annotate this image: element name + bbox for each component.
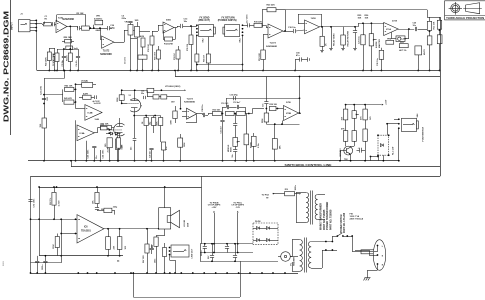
svg-text:1u0 63V: 1u0 63V	[94, 103, 102, 105]
svg-text:10K: 10K	[358, 17, 362, 19]
bottom bus	[31, 273, 299, 275]
svg-text:C18 10n: C18 10n	[288, 27, 296, 29]
svg-text:INPUT: INPUT	[10, 22, 14, 30]
svg-text:+15V: +15V	[386, 99, 388, 105]
svg-text:100K: 100K	[53, 244, 55, 249]
svg-text:10n: 10n	[232, 154, 234, 157]
svg-text:-12V: -12V	[236, 207, 241, 209]
resistor R15	[190, 25, 192, 27]
svg-text:FX SEND: FX SEND	[200, 17, 210, 19]
wire left sub rail	[39, 187, 41, 256]
svg-text:TR2: TR2	[344, 159, 348, 161]
svg-text:NJM2068D: NJM2068D	[266, 46, 277, 48]
op-amp IC3A	[102, 36, 114, 48]
wire rail link	[31, 262, 62, 264]
wire top rail power amp	[39, 187, 201, 189]
potentiometer VR6 MASTER	[371, 23, 373, 34]
svg-text:47K: 47K	[359, 116, 362, 120]
capacitor C2	[54, 48, 56, 55]
capacitor C38	[203, 113, 205, 117]
svg-text:A47K: A47K	[83, 92, 89, 95]
svg-text:A100K: A100K	[375, 41, 378, 48]
svg-text:LK1: LK1	[47, 97, 49, 101]
resistor R30	[439, 17, 441, 20]
transformer T1	[306, 193, 309, 198]
capacitor C4	[78, 49, 80, 56]
svg-text:LK2: LK2	[100, 124, 103, 126]
wire tone out	[133, 30, 135, 32]
svg-text:4K7 1%: 4K7 1%	[399, 49, 406, 52]
projection symbol cone	[466, 3, 480, 14]
svg-text:B50K: B50K	[231, 147, 233, 152]
resistor R2	[82, 26, 90, 30]
resistor R20 feedback	[262, 10, 264, 28]
svg-text:R56 1R: R56 1R	[204, 55, 206, 62]
switch SW1	[332, 236, 334, 242]
wire lower rail amp	[39, 255, 123, 257]
capacitor C75	[235, 244, 237, 256]
wire input node	[31, 219, 76, 221]
svg-text:4R7: 4R7	[151, 245, 154, 248]
op-amp IC5B	[284, 106, 299, 121]
resistor R36	[252, 136, 257, 146]
svg-text:C21 10u: C21 10u	[358, 36, 360, 44]
capacitor C1	[50, 24, 53, 26]
node IC2B out	[284, 30, 286, 32]
bus second line	[174, 70, 176, 72]
wire bottom band top link	[31, 176, 441, 178]
potentiometer VR2	[128, 25, 133, 36]
resistor R22	[343, 27, 345, 35]
resistor R46	[116, 139, 120, 150]
wire SK3 tip	[243, 25, 248, 27]
earth wire	[377, 264, 379, 270]
resistor R52	[119, 95, 124, 101]
wire IC5A out	[197, 113, 203, 115]
preset PR4	[386, 40, 394, 44]
resistor R48	[151, 150, 153, 161]
svg-text:R14 470K: R14 470K	[164, 43, 174, 46]
wire IC3A out	[114, 42, 124, 44]
svg-text:RL1 12V: RL1 12V	[393, 146, 395, 155]
relay send net	[330, 26, 332, 28]
third angle projection box	[445, 1, 485, 20]
svg-text:LAMP: LAMP	[401, 38, 407, 41]
capacitor C29	[415, 27, 417, 31]
svg-text:C4 47u: C4 47u	[75, 59, 78, 66]
wire speaker return	[164, 229, 166, 236]
svg-text:C10 470p: C10 470p	[230, 93, 239, 96]
svg-text:R33 10K: R33 10K	[213, 110, 221, 112]
diode D3	[115, 132, 118, 135]
feedback caps C10 C12	[222, 107, 224, 114]
resistor R41b	[272, 139, 277, 150]
svg-text:1000u: 1000u	[42, 264, 44, 270]
resistor R63c	[97, 210, 104, 212]
resistor R49b	[178, 138, 183, 147]
capacitor C12b pot VR3	[235, 114, 237, 124]
svg-text:IC3B: IC3B	[58, 17, 63, 19]
svg-text:22K 1%: 22K 1%	[50, 198, 52, 205]
resistor R44	[42, 118, 46, 128]
wire right drop	[201, 176, 203, 243]
resistor R47	[107, 138, 112, 148]
wire IC8 out	[174, 27, 177, 29]
op-amp IC1A	[384, 23, 399, 36]
wire IC3B feedback top	[56, 15, 58, 22]
node input	[35, 20, 37, 22]
resistor R70	[352, 131, 356, 142]
capacitor C26	[107, 26, 109, 30]
footswitch contacts bus	[370, 156, 372, 158]
resistor R33	[213, 111, 222, 115]
svg-text:NJM2068D: NJM2068D	[184, 102, 195, 104]
svg-text:10K: 10K	[341, 116, 343, 120]
svg-text:10K: 10K	[125, 245, 127, 249]
resistor R51	[116, 138, 120, 148]
wire IC2A feedback	[298, 23, 305, 25]
svg-text:LK3(A): LK3(A)	[81, 80, 88, 83]
svg-text:IC5B: IC5B	[286, 113, 291, 115]
wire neutral	[369, 255, 378, 257]
svg-text:R42 10K: R42 10K	[65, 85, 73, 88]
capacitor C16	[266, 77, 268, 102]
wire SK3 sleeve	[242, 35, 244, 70]
svg-text:100K: 100K	[117, 97, 119, 102]
svg-text:12dB: 12dB	[95, 119, 100, 121]
svg-text:R15 1M: R15 1M	[187, 44, 189, 51]
resistor R24	[381, 48, 383, 51]
svg-text:THIRD ANGLE PROJECTION: THIRD ANGLE PROJECTION	[446, 16, 484, 20]
svg-text:18V: 18V	[171, 102, 175, 104]
heater winding	[281, 252, 291, 262]
svg-text:1V58: 1V58	[311, 18, 317, 20]
svg-text:R4 1K: R4 1K	[65, 55, 68, 61]
resistor R40	[266, 109, 268, 114]
svg-text:R2 10K: R2 10K	[77, 13, 85, 15]
svg-text:R58 1M0: R58 1M0	[64, 37, 73, 39]
capacitor C7	[77, 26, 79, 30]
svg-text:330K: 330K	[262, 118, 264, 123]
svg-text:HEATER: HEATER	[293, 257, 296, 266]
svg-text:C20 220n: C20 220n	[88, 149, 90, 159]
svg-text:IC4A: IC4A	[80, 132, 85, 135]
svg-text:R57 22K: R57 22K	[259, 53, 261, 61]
wire cluster top	[57, 49, 78, 51]
svg-text:R20 22K: R20 22K	[267, 4, 276, 6]
resistor R63	[429, 30, 431, 36]
capacitor C70	[204, 244, 206, 247]
transistor TR2	[344, 146, 353, 155]
capacitor C33	[357, 150, 360, 152]
svg-text:220n: 220n	[122, 18, 127, 20]
capacitor C11	[222, 114, 224, 120]
svg-text:C6 LK1: C6 LK1	[125, 56, 127, 64]
wire +15V rail top	[285, 9, 427, 11]
resistor R53b	[147, 90, 149, 97]
svg-text:LS1 8R: LS1 8R	[184, 219, 186, 227]
svg-text:CH OP AMPS: CH OP AMPS	[208, 204, 221, 207]
svg-text:C11 4n7: C11 4n7	[220, 126, 223, 133]
resistor R58b	[52, 192, 56, 205]
wire IC5B feedback	[266, 124, 299, 126]
projection symbol circle	[451, 4, 460, 13]
svg-text:C10 1n5: C10 1n5	[221, 103, 228, 105]
lamp DL1	[396, 36, 405, 42]
svg-text:C30 10u: C30 10u	[377, 58, 379, 66]
capacitor C61	[37, 256, 39, 261]
resistor R61	[95, 192, 99, 203]
wire IC3B out	[67, 26, 77, 28]
svg-text:FX RETURN: FX RETURN	[222, 17, 235, 19]
wire IC1A out	[398, 29, 414, 31]
psu rail 1	[200, 243, 253, 245]
transformer T2	[300, 240, 303, 245]
mute switch	[415, 46, 422, 55]
svg-text:R58 100R: R58 100R	[45, 57, 47, 66]
svg-text:POWER SWITCH: POWER SWITCH	[341, 214, 343, 233]
svg-text:240V: T500mA: 240V: T500mA	[350, 217, 364, 220]
svg-text:TL072: TL072	[103, 51, 110, 53]
svg-text:22K: 22K	[113, 245, 115, 249]
wire VR1 out	[95, 28, 107, 30]
svg-text:HT HIGH (180V): HT HIGH (180V)	[165, 86, 181, 88]
svg-text:R13 1K: R13 1K	[174, 53, 176, 60]
svg-text:LINE OUT: LINE OUT	[192, 248, 194, 258]
svg-text:A100KC: A100KC	[94, 17, 103, 20]
psu rail 2	[200, 252, 253, 254]
capacitor C21	[354, 26, 356, 28]
svg-text:2200u: 2200u	[201, 250, 203, 256]
preset PR2	[354, 105, 356, 111]
mains inlet	[373, 240, 385, 271]
svg-text:PART NO. TS8009: PART NO. TS8009	[329, 209, 332, 230]
preset PR1	[399, 44, 408, 48]
resistor R57	[263, 34, 268, 36]
svg-text:22n: 22n	[141, 93, 144, 95]
op-amp IC2B	[268, 24, 283, 38]
resistor R54b	[159, 96, 161, 98]
svg-text:1000u: 1000u	[295, 184, 297, 190]
svg-text:C24 100n: C24 100n	[101, 149, 104, 159]
wire amp inputs	[60, 218, 62, 220]
svg-text:R41 47K: R41 47K	[64, 97, 72, 100]
resistor R65	[163, 248, 167, 257]
wire to IC3A	[100, 28, 102, 39]
capacitor C11a	[180, 24, 182, 28]
resistor R35	[237, 111, 246, 115]
wire to IC8	[152, 31, 158, 33]
svg-text:C38 10u: C38 10u	[202, 104, 204, 112]
resistor R19	[254, 23, 262, 27]
link LK2	[101, 126, 108, 130]
svg-text:R19 47K: R19 47K	[254, 20, 262, 23]
svg-text:C25: C25	[141, 91, 144, 93]
speaker LS1	[159, 208, 171, 229]
svg-text:D5-D8: D5-D8	[255, 221, 260, 223]
relay RL1	[378, 135, 389, 155]
svg-text:V1-: V1-	[290, 262, 292, 266]
svg-text:RELAY RETURN: RELAY RETURN	[346, 30, 349, 46]
capacitor C18	[293, 29, 295, 33]
wire input signal	[36, 23, 42, 25]
svg-text:R39 10K: R39 10K	[270, 104, 278, 106]
svg-text:C17 100n: C17 100n	[247, 14, 249, 24]
meter M1	[66, 46, 73, 50]
svg-text:1u 63V: 1u 63V	[59, 200, 61, 207]
wire cathode tie	[134, 115, 160, 117]
wire jack switch contacts	[197, 64, 243, 66]
resistor R64	[154, 237, 158, 246]
link LK3	[76, 84, 82, 86]
title strip border	[10, 0, 12, 135]
fuse FS1	[352, 236, 354, 252]
resistor R34	[226, 111, 235, 115]
wire HT rail	[122, 90, 147, 92]
svg-text:100K: 100K	[171, 120, 173, 125]
svg-text:R12 10K: R12 10K	[148, 44, 150, 52]
resistor R57b	[152, 118, 156, 126]
diode D2	[110, 132, 113, 135]
resistor R13	[176, 50, 180, 59]
psu rail 3	[200, 261, 278, 263]
pot cluster extra	[141, 38, 145, 47]
resistor R56	[208, 37, 210, 54]
bridge rectifier D5-D8	[253, 223, 278, 244]
bus drop to preamp	[64, 70, 66, 72]
wire pots to bus	[130, 38, 132, 71]
wire IC4A ground legs	[86, 141, 88, 161]
wire right border	[440, 17, 442, 176]
svg-text:TDA2051: TDA2051	[81, 229, 92, 232]
svg-text:(6): (6)	[117, 261, 120, 263]
resistor R3	[57, 49, 59, 53]
svg-text:0.15u: 0.15u	[258, 142, 260, 148]
svg-text:C72 100n: C72 100n	[34, 198, 36, 208]
resistor R62	[106, 237, 111, 250]
svg-text:30W: 30W	[187, 223, 189, 227]
svg-text:R50 3K9: R50 3K9	[155, 51, 157, 60]
chassis ground	[365, 277, 371, 279]
resistor R50	[157, 50, 161, 59]
svg-text:MIDDLE: MIDDLE	[228, 144, 230, 152]
capacitor C50	[295, 59, 300, 61]
capacitor C72	[28, 199, 32, 201]
capacitor C17	[247, 23, 249, 27]
resistor R4	[70, 49, 72, 53]
svg-text:FOOTSWITCH: FOOTSWITCH	[422, 126, 424, 141]
svg-text:8669: 8669	[3, 260, 5, 266]
wire +15V feed	[346, 104, 382, 106]
svg-text:MASTER: MASTER	[378, 39, 381, 48]
svg-text:R3 100K: R3 100K	[53, 53, 55, 61]
resistor R69	[343, 131, 347, 142]
wire footswitch	[387, 123, 399, 125]
svg-text:V1: V1	[129, 95, 131, 97]
wire frame lower	[70, 160, 72, 162]
potentiometer VR4	[246, 114, 248, 135]
wire J1 to node	[30, 20, 36, 22]
ground bus top band	[37, 70, 440, 72]
node col	[75, 83, 77, 85]
resistor R27	[363, 23, 365, 35]
wire anode col	[180, 97, 182, 109]
resistor R59	[159, 118, 163, 126]
svg-text:TL072: TL072	[187, 98, 194, 100]
op-amp IC2A	[305, 20, 320, 34]
resistor R58	[47, 52, 51, 61]
svg-text:100K: 100K	[184, 142, 186, 147]
svg-text:A1M: A1M	[140, 35, 144, 38]
svg-text:NJM2068D: NJM2068D	[62, 19, 74, 21]
resistor R68	[343, 109, 347, 120]
capacitor C74	[227, 244, 229, 247]
wire feed middle band	[44, 78, 65, 80]
svg-text:C3 22p: C3 22p	[62, 59, 64, 66]
resistor R21	[321, 26, 323, 28]
capacitor C60	[45, 256, 47, 261]
capacitor C25	[143, 96, 145, 99]
wire IC5A feedback	[186, 122, 197, 124]
resistor R55	[144, 118, 148, 126]
wire master in	[358, 23, 360, 27]
svg-text:C30 22n: C30 22n	[150, 150, 152, 158]
wire left rail bottom band	[30, 176, 32, 273]
heater loop	[133, 273, 135, 297]
svg-text:MUTE: MUTE	[424, 48, 426, 55]
svg-text:10K: 10K	[365, 17, 369, 19]
svg-text:R67 10R: R67 10R	[143, 255, 145, 263]
resistor R18	[196, 35, 198, 54]
op-amp IC4A	[77, 125, 94, 141]
preset VR5	[83, 95, 92, 99]
svg-text:(POWER AMP IN): (POWER AMP IN)	[218, 19, 237, 22]
capacitor C27	[134, 116, 136, 139]
resistor R14	[165, 37, 173, 41]
zobel C63	[151, 245, 153, 249]
wires T2 primary	[311, 241, 332, 243]
svg-text:NJM2068D: NJM2068D	[100, 54, 112, 56]
capacitor C71	[212, 244, 214, 256]
tube V1b	[114, 123, 125, 136]
svg-text:IC4B: IC4B	[88, 112, 93, 115]
potentiometer VR3	[135, 27, 140, 38]
wire IC2A out	[320, 26, 359, 28]
resistor R60	[55, 237, 59, 248]
svg-text:(PRE OUT): (PRE OUT)	[198, 20, 210, 22]
tube V1a	[130, 99, 141, 112]
resistor R11	[429, 17, 431, 21]
capacitor C62	[97, 204, 99, 208]
resistor R71	[365, 105, 367, 110]
svg-text:IC1A: IC1A	[386, 28, 391, 31]
svg-text:100K: 100K	[157, 121, 159, 126]
svg-text:2V38: 2V38	[392, 21, 398, 23]
resistor R45	[94, 132, 97, 134]
wire tone feed	[44, 94, 63, 96]
wire IC5B out	[299, 112, 301, 114]
resistor R12	[150, 36, 154, 45]
switching control line bus	[28, 160, 399, 162]
svg-text:R11 10K: R11 10K	[434, 21, 436, 29]
svg-text:DWG.No. PC8669.DGM: DWG.No. PC8669.DGM	[1, 11, 10, 122]
wire middle left rail	[44, 78, 46, 161]
svg-text:C23 220n: C23 220n	[41, 85, 43, 95]
svg-text:CH OP AMPS: CH OP AMPS	[231, 204, 244, 207]
op-amp IC6 TDA2051	[77, 215, 104, 243]
svg-text:C12 4n7: C12 4n7	[233, 101, 240, 104]
svg-text:1K5: 1K5	[105, 144, 107, 147]
